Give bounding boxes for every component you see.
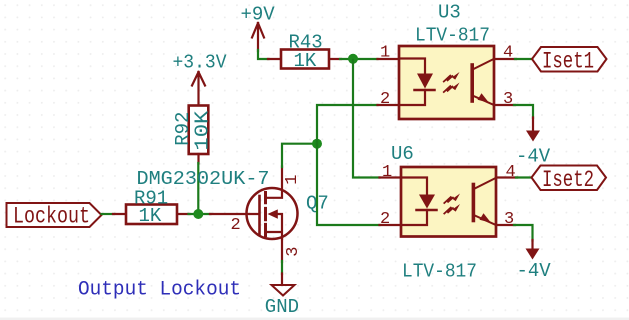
svg-text:+9V: +9V bbox=[241, 3, 276, 25]
wire Q7 drain to node bbox=[282, 144, 317, 167]
svg-text:DMG2302UK-7: DMG2302UK-7 bbox=[137, 168, 270, 190]
svg-text:3: 3 bbox=[503, 90, 513, 109]
U3 LED cathode path bbox=[400, 90, 425, 105]
svg-text:1K: 1K bbox=[139, 205, 162, 227]
svg-text:1K: 1K bbox=[294, 50, 317, 72]
svg-text:U6: U6 bbox=[391, 143, 414, 165]
svg-text:-4V: -4V bbox=[516, 146, 551, 168]
U6 LED cathode path bbox=[402, 210, 427, 225]
wire R92 to gate junction bbox=[197, 163, 199, 214]
svg-text:Lockout: Lockout bbox=[13, 204, 90, 230]
svg-text:2: 2 bbox=[231, 216, 241, 235]
resistor R43 bbox=[268, 50, 341, 69]
Q7 channel dashes bbox=[264, 193, 267, 236]
U3 emitter arrow bbox=[478, 93, 490, 103]
Q7 body arrow bbox=[268, 209, 278, 218]
wire U3 pin4 to Iset1 bbox=[515, 58, 532, 60]
optocoupler U3 bbox=[378, 46, 517, 119]
wire +9V to R43 bbox=[258, 50, 269, 59]
svg-text:1: 1 bbox=[382, 163, 392, 182]
junction node gate/R92/R91 bbox=[193, 209, 203, 219]
U3 LED cathode bar bbox=[415, 89, 435, 92]
wire U6 pin3 to -4V bbox=[514, 225, 533, 241]
U6 phototransistor bar bbox=[472, 185, 476, 221]
net flag Iset2 bbox=[532, 166, 607, 191]
resistor R92 bbox=[189, 106, 209, 164]
Q7 source stub bbox=[267, 214, 283, 239]
U6 photon arrows bbox=[444, 197, 453, 203]
supply +3.3V symbol bbox=[192, 72, 205, 106]
U6 emitter line bbox=[474, 215, 496, 225]
wire Q7 source to GND bbox=[281, 261, 283, 274]
supply -4V symbol lower bbox=[526, 240, 540, 260]
svg-text:2: 2 bbox=[380, 210, 390, 229]
wire junction down to U6 pin1 bbox=[353, 60, 380, 178]
svg-text:Iset1: Iset1 bbox=[542, 48, 594, 74]
optocoupler U6 bbox=[380, 167, 518, 237]
U6 emitter arrow bbox=[480, 213, 492, 223]
junction node R43/U3/U6 bbox=[348, 54, 358, 64]
U3 emitter line bbox=[473, 96, 495, 106]
net flag Iset1 bbox=[532, 47, 607, 72]
U6 LED triangle bbox=[419, 195, 435, 209]
U3 phototransistor bar bbox=[470, 65, 474, 101]
wire node up to U3 pin2 bbox=[317, 105, 378, 145]
svg-text:3: 3 bbox=[504, 210, 514, 229]
U6 LED anode path bbox=[402, 178, 427, 196]
svg-text:GND: GND bbox=[265, 296, 299, 318]
U3 LED anode path bbox=[400, 59, 425, 75]
U6 LED cathode bar bbox=[417, 209, 437, 212]
supply -4V symbol upper bbox=[526, 118, 540, 142]
supply +9V symbol bbox=[252, 23, 264, 51]
ground GND symbol bbox=[272, 274, 295, 296]
U3 pin wires bbox=[378, 59, 517, 105]
wire R43 to junction to U3 pin1 bbox=[340, 58, 378, 60]
Q7 body circle bbox=[247, 188, 298, 239]
junction node drain/U3pin2/U6pin2 bbox=[312, 139, 322, 149]
U6 pin wires bbox=[380, 178, 518, 226]
svg-text:+3.3V: +3.3V bbox=[173, 52, 228, 74]
U3 photon arrows bbox=[444, 76, 453, 82]
svg-text:Output Lockout: Output Lockout bbox=[78, 278, 241, 301]
wire node down to U6 pin2 bbox=[317, 143, 380, 225]
U6 collector line bbox=[474, 178, 496, 189]
Q7 gate bar bbox=[258, 196, 261, 235]
svg-text:U3: U3 bbox=[438, 2, 461, 24]
svg-text:LTV-817: LTV-817 bbox=[402, 261, 477, 283]
wire Lockout to R91 bbox=[102, 213, 115, 215]
U3 collector line bbox=[473, 59, 495, 70]
svg-text:3: 3 bbox=[284, 247, 303, 257]
U3 body bbox=[399, 46, 494, 119]
svg-text:Iset2: Iset2 bbox=[542, 167, 594, 193]
resistor R91 bbox=[113, 205, 190, 225]
U6 body bbox=[401, 167, 496, 237]
Q7 source pin wire bbox=[281, 238, 283, 262]
transistor Q7 DMG2302UK-7 bbox=[210, 167, 298, 263]
Q7 drain stub bbox=[267, 167, 283, 198]
svg-text:LTV-817: LTV-817 bbox=[415, 25, 490, 47]
svg-text:1: 1 bbox=[380, 44, 390, 63]
net flag Lockout bbox=[7, 203, 102, 227]
wire U3 pin3 to -4V bbox=[514, 105, 533, 118]
U3 LED triangle bbox=[417, 74, 433, 89]
svg-text:-4V: -4V bbox=[517, 260, 552, 282]
wire R91 to junction bbox=[189, 213, 211, 215]
svg-text:2: 2 bbox=[380, 90, 390, 109]
svg-text:4: 4 bbox=[503, 44, 513, 63]
svg-text:4: 4 bbox=[506, 163, 516, 182]
svg-text:10K: 10K bbox=[192, 110, 214, 151]
svg-text:1: 1 bbox=[283, 175, 302, 185]
Q7 gate pin wire bbox=[210, 213, 258, 215]
wire U6 pin4 to Iset2 bbox=[516, 176, 532, 178]
